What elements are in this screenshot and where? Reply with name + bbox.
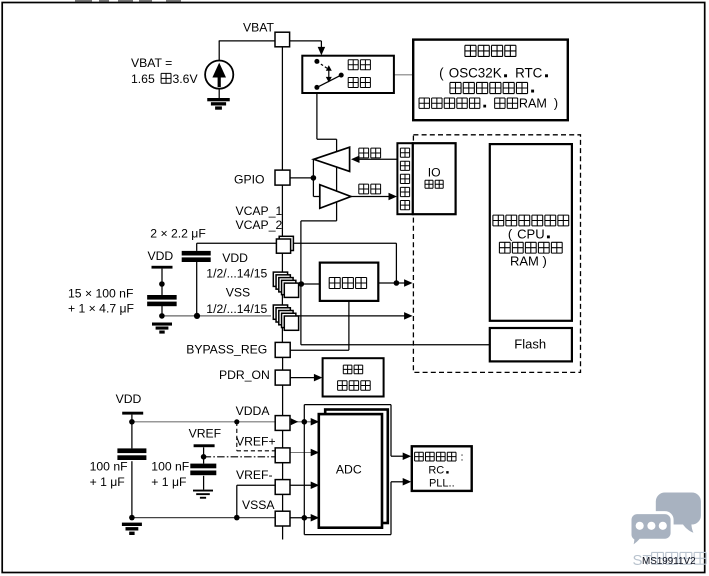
svg-text:VDD: VDD: [116, 392, 142, 406]
svg-text:VSSA: VSSA: [242, 498, 275, 512]
svg-text:+ 1 μF: + 1 μF: [151, 475, 186, 489]
svg-text:PLL..: PLL..: [429, 478, 455, 490]
svg-text:VSS: VSS: [226, 286, 250, 300]
svg-text::: :: [460, 451, 463, 463]
svg-text:VBAT: VBAT: [243, 20, 274, 34]
svg-text:+ 1 μF: + 1 μF: [90, 475, 125, 489]
svg-text:VCAP_1: VCAP_1: [236, 204, 283, 218]
svg-text:VBAT =: VBAT =: [131, 56, 172, 70]
svg-text:GPIO: GPIO: [234, 172, 264, 186]
svg-text:RTC: RTC: [515, 65, 543, 80]
svg-text:CPU: CPU: [517, 227, 544, 242]
svg-text:2 × 2.2 μF: 2 × 2.2 μF: [150, 226, 205, 240]
svg-text:VDD: VDD: [222, 251, 248, 265]
svg-text:ADC: ADC: [336, 463, 362, 477]
svg-text:PDR_ON: PDR_ON: [219, 368, 270, 382]
svg-text:MS19911V2: MS19911V2: [642, 556, 696, 567]
svg-text:VDDA: VDDA: [236, 404, 271, 418]
svg-text:BYPASS_REG: BYPASS_REG: [186, 342, 267, 356]
svg-text:Flash: Flash: [514, 336, 546, 351]
svg-text:1/2/...14/15: 1/2/...14/15: [206, 302, 267, 316]
svg-text:RAM: RAM: [510, 254, 539, 269]
svg-text:VCAP_2: VCAP_2: [236, 218, 283, 232]
svg-text:VREF+: VREF+: [236, 434, 276, 448]
svg-text:+ 1 × 4.7 μF: + 1 × 4.7 μF: [68, 302, 134, 316]
svg-text:OSC32K: OSC32K: [449, 65, 502, 80]
svg-text:): ): [542, 254, 546, 269]
svg-text:RAM: RAM: [519, 97, 547, 111]
svg-text:1.65: 1.65: [131, 72, 155, 86]
svg-text:100 nF: 100 nF: [151, 459, 189, 473]
svg-text:VREF: VREF: [189, 426, 222, 440]
svg-text:VDD: VDD: [148, 249, 174, 263]
svg-text:VREF-: VREF-: [236, 468, 273, 482]
svg-text:): ): [554, 97, 558, 111]
svg-text:(: (: [508, 227, 513, 242]
svg-text:3.6V: 3.6V: [173, 72, 199, 86]
svg-text:(: (: [439, 65, 444, 80]
svg-text:IO: IO: [428, 166, 441, 180]
svg-text:100 nF: 100 nF: [90, 459, 128, 473]
svg-text:1/2/...14/15: 1/2/...14/15: [206, 267, 267, 281]
svg-text:RC: RC: [428, 465, 444, 477]
svg-text:15 × 100 nF: 15 × 100 nF: [68, 286, 133, 300]
